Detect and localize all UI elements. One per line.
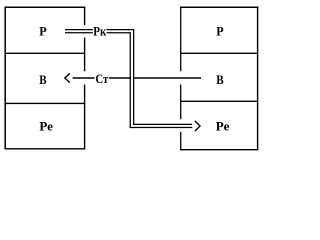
svg-text:Ре: Ре — [39, 118, 53, 133]
double line Pk left segment upper stroke — [65, 29, 93, 31]
double line Pk inner stroke of main run — [107, 33, 193, 128]
svg-text:В: В — [216, 72, 224, 87]
white core of double line crossing wire St — [131, 76, 133, 79]
double line Pk left segment lower stroke — [65, 32, 93, 34]
wire St horizontal left segment — [73, 77, 95, 79]
double line Pk outer stroke of main run — [107, 30, 193, 125]
svg-text:В: В — [39, 72, 47, 87]
svg-text:Р: Р — [39, 23, 46, 38]
left block outline — [5, 7, 86, 150]
right block outline — [180, 7, 258, 151]
arrowhead right into Re — [195, 121, 200, 131]
left block divider P/V — [5, 52, 86, 54]
right block divider P/V — [180, 52, 258, 54]
right block divider V/Re — [180, 100, 258, 102]
svg-text:Ст: Ст — [95, 71, 108, 86]
arrowhead left on wire St — [65, 73, 70, 82]
svg-text:Рк: Рк — [93, 23, 106, 38]
left block divider V/Re — [5, 102, 86, 104]
svg-text:Ре: Ре — [216, 118, 230, 133]
wire St horizontal right segment — [109, 77, 201, 79]
svg-text:Р: Р — [216, 23, 223, 38]
